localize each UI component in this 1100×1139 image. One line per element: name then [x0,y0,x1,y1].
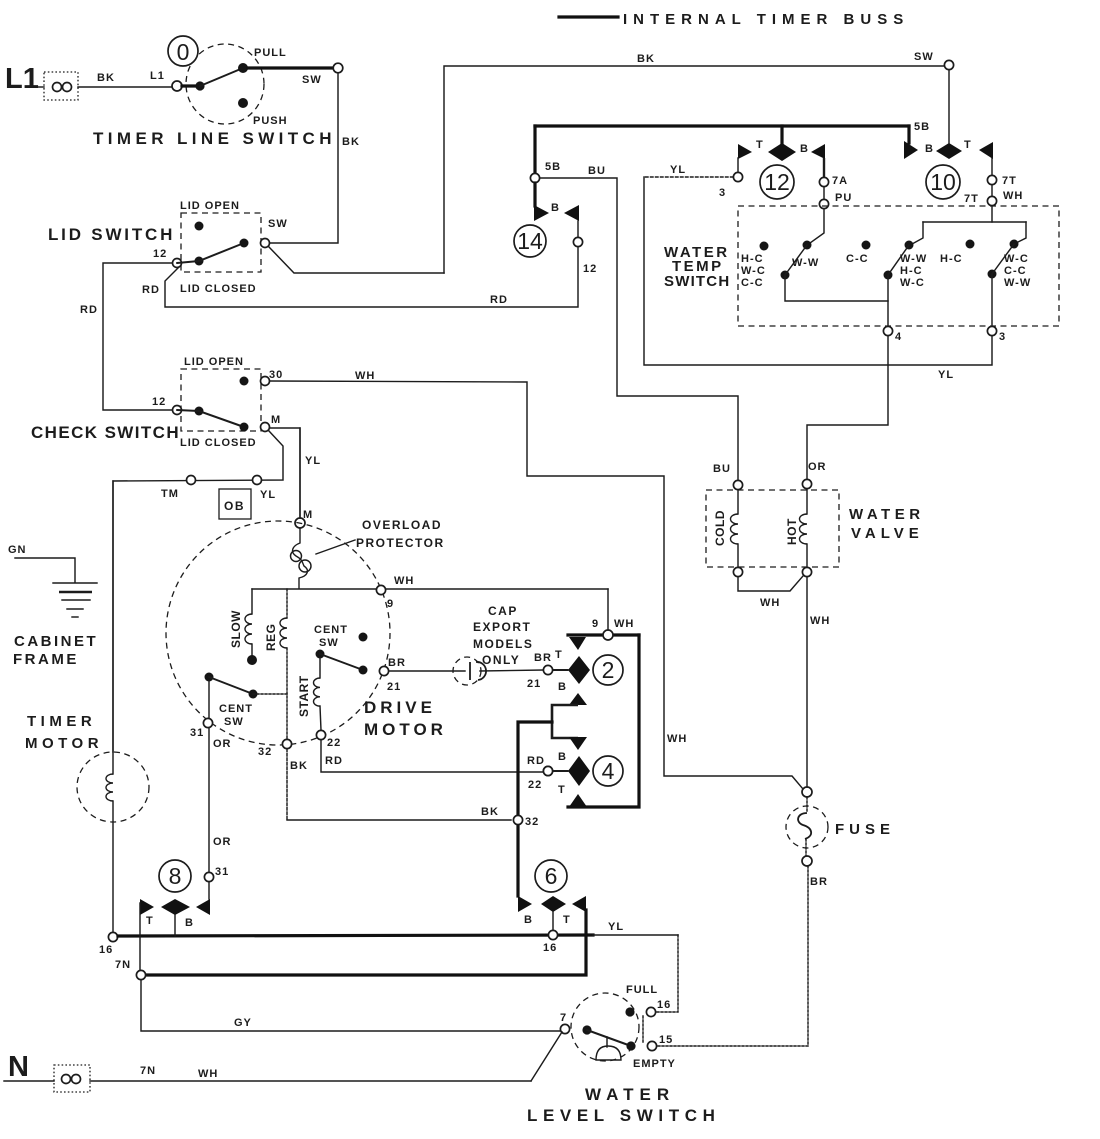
node 3 water temp [987,326,1006,343]
motor START winding [297,658,341,749]
water temp switch blade 1 [781,245,889,301]
svg-text:WH: WH [394,575,414,587]
svg-text:T: T [563,914,571,926]
contact 2 [527,618,639,693]
svg-text:DRIVE: DRIVE [364,698,436,717]
wire timer line switch SW node [248,63,343,86]
svg-text:LID SWITCH: LID SWITCH [48,225,175,244]
svg-text:3: 3 [719,187,726,199]
svg-text:RD: RD [325,755,343,767]
svg-text:RD: RD [142,284,160,296]
svg-text:7N: 7N [115,959,131,971]
svg-text:BU: BU [588,165,606,177]
svg-text:BR: BR [810,876,828,888]
svg-text:BK: BK [342,136,360,148]
svg-text:SLOW: SLOW [229,610,243,648]
svg-text:B: B [185,917,194,929]
svg-text:RD: RD [80,304,98,316]
motor REG winding [264,589,287,739]
svg-text:H-C: H-C [741,253,764,265]
svg-text:W-W: W-W [1004,277,1031,289]
svg-text:10: 10 [930,169,956,195]
svg-text:W-C: W-C [900,277,925,289]
water valve [706,490,925,567]
svg-text:PROTECTOR: PROTECTOR [356,536,445,550]
svg-text:ONLY: ONLY [482,653,520,667]
wire OR water temp 4 to water valve HOT [807,336,888,479]
svg-text:SWITCH: SWITCH [664,273,730,290]
svg-text:GN: GN [8,544,27,556]
svg-text:B: B [524,914,533,926]
water temp switch wire WH drop [912,206,1026,244]
svg-text:7A: 7A [832,175,848,187]
svg-text:OR: OR [808,461,827,473]
node 7N [115,959,146,980]
svg-text:EMPTY: EMPTY [633,1058,676,1070]
svg-text:YL: YL [260,489,276,501]
svg-text:TM: TM [161,488,179,500]
svg-text:30: 30 [269,369,283,381]
cap export models only [473,604,533,667]
water temp switch blade 3 [988,244,1015,326]
svg-text:T: T [146,915,154,927]
svg-text:BK: BK [290,760,308,772]
svg-text:7T: 7T [964,193,979,205]
water valve HOT solenoid [785,479,812,576]
svg-text:YL: YL [670,164,686,176]
svg-text:12: 12 [583,263,597,275]
svg-text:CHECK SWITCH: CHECK SWITCH [31,423,180,442]
timer motor [25,481,149,932]
svg-text:31: 31 [190,727,204,739]
svg-text:5B: 5B [545,161,561,173]
svg-text:C-C: C-C [1004,265,1027,277]
motor cent sw upper [314,624,406,693]
svg-text:PUSH: PUSH [253,115,288,127]
svg-text:N: N [8,1051,29,1083]
svg-text:WH: WH [614,618,634,630]
svg-text:B: B [800,143,809,155]
svg-text:L1: L1 [5,63,39,95]
node 4 water temp [883,326,902,343]
svg-text:LID CLOSED: LID CLOSED [180,437,257,449]
svg-text:PULL: PULL [254,47,287,59]
svg-text:9: 9 [387,598,394,610]
svg-text:RD: RD [490,294,508,306]
svg-text:SW: SW [302,74,322,86]
wire RD lid switch 12 to timer terminal 12 [165,247,578,307]
svg-text:CABINET: CABINET [14,633,98,650]
svg-text:H-C: H-C [900,265,923,277]
svg-text:M: M [271,414,281,426]
fuse [786,787,895,888]
motor cent sw lower [190,673,287,740]
contact 14 [514,126,597,275]
contact 6 [518,860,586,954]
svg-text:CAP: CAP [488,604,518,618]
svg-text:12: 12 [764,169,790,195]
svg-text:21: 21 [527,678,541,690]
svg-text:LID OPEN: LID OPEN [180,200,240,212]
svg-text:14: 14 [517,228,543,254]
svg-text:5B: 5B [914,121,930,133]
svg-text:H-C: H-C [940,253,963,265]
timer node 22 RD [543,766,552,775]
overload protector [291,428,445,589]
svg-text:M: M [303,509,313,521]
wire WH node 9 riser to contact 2 [607,589,609,630]
svg-text:VALVE: VALVE [851,525,924,542]
contact 8 [140,860,210,970]
wire YL timer 3 to water temp 3 [644,164,992,381]
svg-text:MOTOR: MOTOR [25,735,103,752]
wire RD motor 22 to contact 4 [321,740,543,772]
svg-text:LID CLOSED: LID CLOSED [180,283,257,295]
svg-text:YL: YL [608,921,624,933]
svg-text:4: 4 [602,758,615,784]
svg-text:W-W: W-W [900,253,927,265]
wire lid switch 12 to check switch 12 (RD) [80,263,172,410]
wire WH motor node 9 [252,575,608,610]
svg-text:T: T [555,649,563,661]
svg-text:BU: BU [713,463,731,475]
water temp switch wire PU drop [810,209,824,243]
svg-text:0: 0 [177,39,190,65]
svg-text:WH: WH [198,1068,218,1080]
svg-text:C-C: C-C [846,253,869,265]
svg-text:L1: L1 [150,70,165,82]
svg-text:7: 7 [560,1012,567,1024]
svg-text:INTERNAL TIMER BUSS: INTERNAL TIMER BUSS [623,11,909,28]
svg-text:WH: WH [810,615,830,627]
svg-text:4: 4 [895,331,902,343]
contact 10 [904,70,1023,206]
svg-text:9: 9 [592,618,599,630]
svg-text:16: 16 [99,944,113,956]
svg-text:BR: BR [388,657,406,669]
svg-text:LEVEL SWITCH: LEVEL SWITCH [527,1106,720,1125]
contact 4 [527,751,623,807]
wire lid switch SW to BK riser [269,247,444,273]
svg-text:WH: WH [355,370,375,382]
lid switch [48,200,288,295]
svg-text:32: 32 [525,816,539,828]
terminal N [4,1051,90,1092]
svg-text:PU: PU [835,192,852,204]
svg-text:12: 12 [152,396,166,408]
svg-text:EXPORT: EXPORT [473,620,531,634]
wire 7N WH neutral to water level 7 [90,1032,562,1081]
svg-text:C-C: C-C [741,277,764,289]
svg-text:SW: SW [268,218,288,230]
svg-text:T: T [756,139,764,151]
svg-text:2: 2 [602,657,615,683]
water temp switch contacts row [741,240,1031,290]
svg-text:6: 6 [545,863,558,889]
svg-text:HOT: HOT [785,518,799,545]
wire step contact 2 to contact 4 [552,693,587,750]
motor node 32 [258,739,292,758]
svg-text:W-C: W-C [741,265,766,277]
svg-text:3: 3 [999,331,1006,343]
svg-text:7T: 7T [1002,175,1017,187]
svg-text:REG: REG [264,623,278,651]
svg-text:GY: GY [234,1017,252,1029]
wire BK motor 32 to timer 32 [287,749,511,820]
ground cabinet frame [8,544,98,668]
wire BK from SW down to lid switch [270,73,360,243]
timer node 32 [513,815,539,828]
svg-text:B: B [558,751,567,763]
internal buss contact 2-4 frame [568,635,639,807]
wire OR cent sw to contact 8 [204,728,231,899]
water temp switch [664,206,1059,326]
water valve COLD solenoid [713,480,743,576]
node SW top right [914,51,954,70]
svg-text:SW: SW [224,716,244,728]
water temp switch blade 2 [884,245,910,326]
wire WH water valve bridge [738,576,803,609]
svg-text:TIMER: TIMER [27,713,96,730]
svg-text:12: 12 [153,248,167,260]
svg-text:8: 8 [169,863,182,889]
wire WH check switch 30 to fuse [270,370,803,789]
water level switch [527,984,720,1125]
svg-text:T: T [964,139,972,151]
internal buss to contact 6 [518,722,552,896]
internal buss 16 [99,932,593,956]
node OB [219,489,251,519]
svg-text:BR: BR [534,652,552,664]
timer line switch [93,36,336,148]
svg-text:COLD: COLD [713,510,727,546]
wire GY 7N to water level 7 [141,980,561,1031]
check switch [31,356,283,449]
svg-text:WH: WH [1003,190,1023,202]
svg-text:OB: OB [224,499,245,513]
svg-text:16: 16 [657,999,671,1011]
svg-text:32: 32 [258,746,272,758]
svg-text:START: START [297,675,311,717]
svg-text:YL: YL [305,455,321,467]
svg-text:YL: YL [938,369,954,381]
svg-text:FUSE: FUSE [835,821,895,838]
wire BK top buss to timer SW terminal [444,53,944,273]
drive motor [166,521,447,745]
svg-text:LID OPEN: LID OPEN [184,356,244,368]
legend internal timer buss [559,11,909,28]
svg-text:B: B [925,143,934,155]
svg-text:WH: WH [667,733,687,745]
wire BR fuse to water level 15 [657,866,808,1046]
svg-text:OR: OR [213,738,232,750]
svg-text:B: B [551,202,560,214]
svg-text:TIMER LINE SWITCH: TIMER LINE SWITCH [93,129,336,148]
svg-text:MOTOR: MOTOR [364,720,447,739]
svg-text:OVERLOAD: OVERLOAD [362,518,442,532]
svg-text:21: 21 [387,681,401,693]
wire YL 16 line to water level FULL [593,921,678,1012]
svg-text:22: 22 [327,737,341,749]
svg-text:BK: BK [637,53,655,65]
svg-text:OR: OR [213,836,232,848]
contact 12 [719,126,852,209]
wire WH water valve to fuse [807,577,830,787]
svg-text:FULL: FULL [626,984,658,996]
svg-text:MODELS: MODELS [473,637,533,651]
svg-text:B: B [558,681,567,693]
internal timer buss 5B [535,121,930,133]
svg-text:WH: WH [760,597,780,609]
svg-text:T: T [558,784,566,796]
svg-text:16: 16 [543,942,557,954]
wire BU from 5B node to water valve [540,165,738,480]
svg-text:31: 31 [215,866,229,878]
svg-text:BK: BK [97,72,115,84]
svg-text:W-C: W-C [1004,253,1029,265]
svg-text:WATER: WATER [585,1085,675,1104]
svg-text:FRAME: FRAME [13,651,79,668]
svg-text:SW: SW [319,637,339,649]
capacitor [389,657,543,685]
svg-text:BK: BK [481,806,499,818]
svg-text:SW: SW [914,51,934,63]
wire L1 BK to timer line switch [78,70,172,87]
svg-text:15: 15 [659,1034,673,1046]
svg-text:7N: 7N [140,1065,156,1077]
terminal L1 [5,63,78,100]
svg-text:CENT: CENT [219,703,253,715]
motor SLOW winding [229,589,257,665]
svg-text:WATER: WATER [849,506,925,523]
svg-text:RD: RD [527,755,545,767]
wire TM branch from M [113,431,283,752]
svg-text:CENT: CENT [314,624,348,636]
wire YL check switch M to motor M [270,428,321,518]
svg-text:22: 22 [528,779,542,791]
internal buss 7N from contact 6 [145,910,586,975]
